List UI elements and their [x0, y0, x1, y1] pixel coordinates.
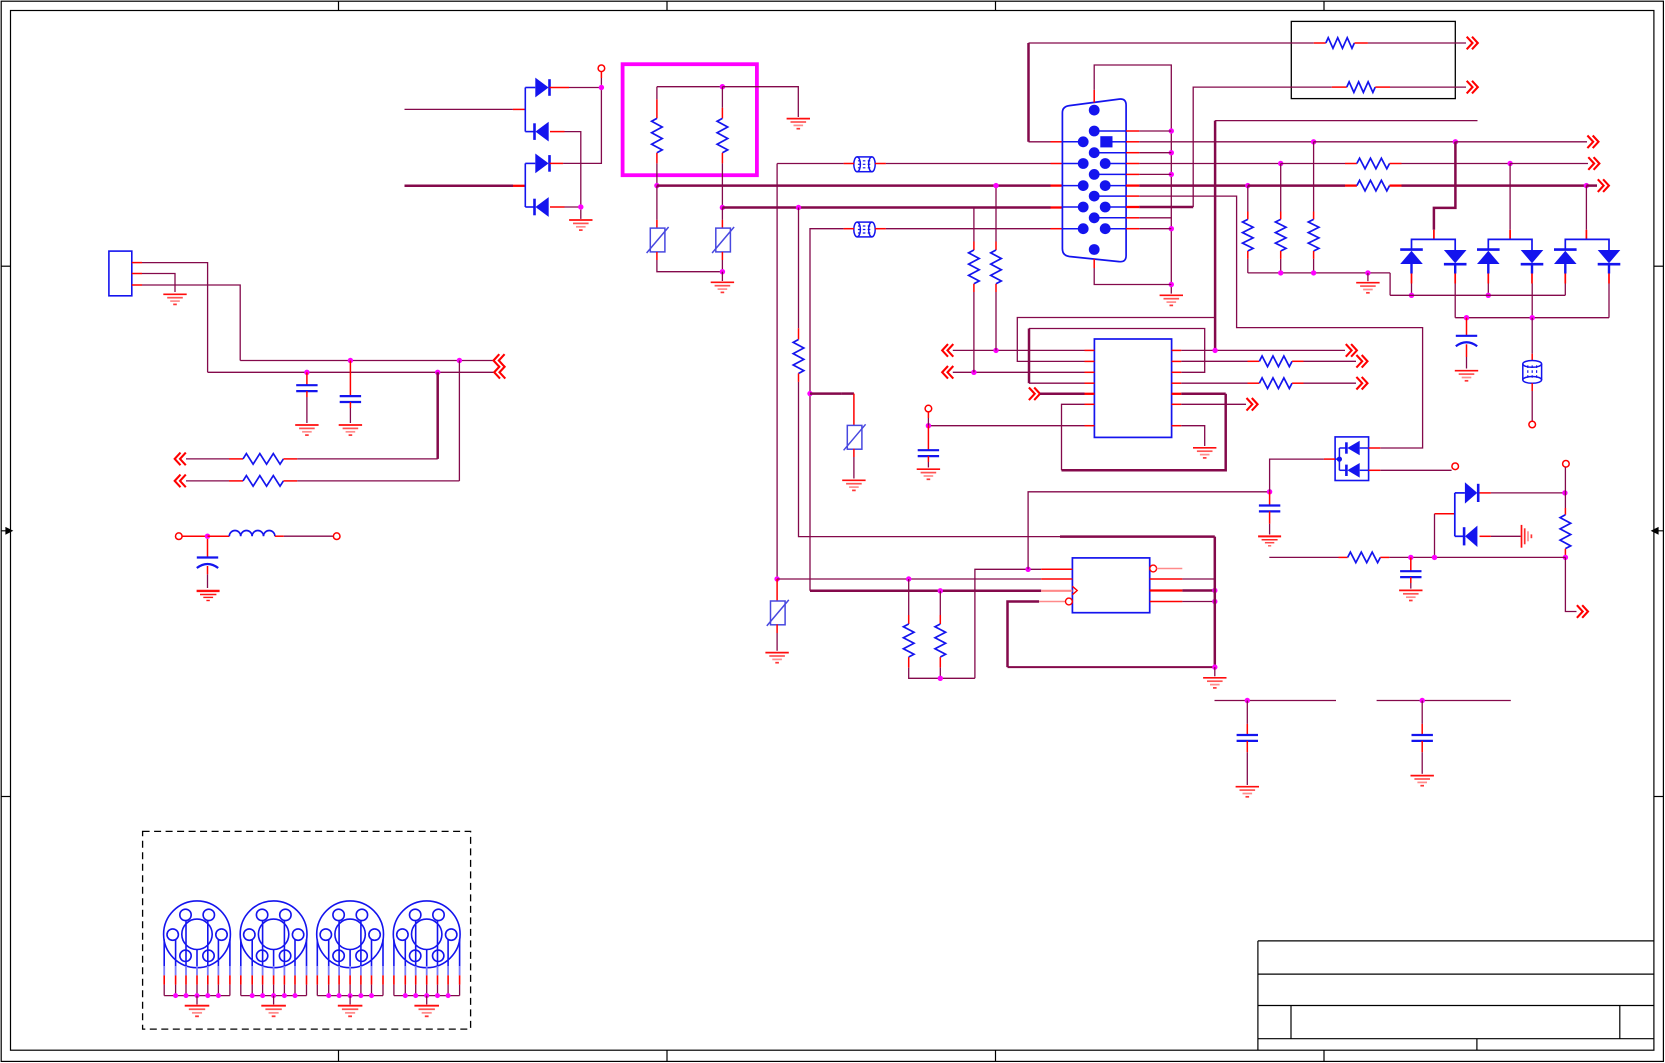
ground rotated: [1522, 525, 1532, 548]
wire: [405, 108, 513, 110]
wire: [1182, 589, 1214, 592]
ground: [426, 996, 428, 1005]
diode D2B: [535, 197, 549, 217]
pin stub: [229, 458, 243, 460]
cap stem: [1466, 318, 1468, 336]
ground: [196, 996, 198, 1005]
diode pair bridge: [1488, 239, 1532, 250]
node junction: [720, 84, 725, 89]
wire: [722, 87, 798, 117]
node junction: [1212, 664, 1217, 669]
diode DA: [1477, 250, 1500, 264]
wire: [722, 206, 1050, 209]
wire: [1269, 511, 1271, 523]
pin stub: [853, 394, 855, 426]
wire: [721, 208, 723, 220]
wire: [1181, 393, 1225, 396]
wire: [1214, 121, 1217, 351]
pin stub: [776, 624, 778, 633]
resistor R14: [935, 624, 946, 657]
connector J3 leads: [241, 921, 307, 966]
wire: [1215, 120, 1477, 122]
pin stub: [1345, 163, 1357, 165]
resistor R2: [717, 118, 728, 152]
pin stub: [1480, 492, 1491, 494]
wire: [1248, 184, 1345, 187]
resistor R at 1248: [1243, 219, 1254, 251]
wire: [1027, 43, 1030, 142]
wire: [1139, 196, 1422, 448]
pin stub: [875, 163, 886, 165]
node junction: [774, 576, 779, 581]
wire: [1269, 556, 1338, 558]
pin stub: [1314, 42, 1326, 44]
pin stub: [1375, 86, 1390, 88]
pin stub: [1150, 589, 1183, 591]
connector J5: [393, 901, 460, 968]
wire: [1248, 272, 1390, 274]
node junction: [1563, 555, 1568, 560]
wire rail: [1377, 700, 1511, 702]
pin stub: [1345, 184, 1357, 186]
wire: [1531, 318, 1533, 354]
ground: [1236, 787, 1259, 797]
wire: [1410, 577, 1412, 583]
pin stub: [1585, 230, 1587, 240]
wire: [1313, 259, 1315, 273]
pin stub: [721, 252, 723, 260]
wire: [1017, 318, 1215, 362]
diode DA: [1554, 250, 1577, 264]
pin stub: [656, 99, 658, 118]
port P3: [333, 533, 340, 540]
wire: [1182, 578, 1214, 580]
cap stem: [349, 361, 351, 397]
wire: [777, 163, 844, 165]
port stem: [927, 412, 929, 418]
wire: [565, 132, 581, 207]
connector J1: [109, 251, 132, 296]
wire: [186, 480, 229, 482]
wire: [1193, 87, 1332, 207]
off-page arrow: [175, 475, 186, 488]
connector CON1 pins: [1062, 141, 1083, 143]
resistor R17: [793, 340, 804, 374]
node junction: [971, 370, 976, 375]
node junction: [348, 358, 353, 363]
wire: [1402, 163, 1511, 165]
node junction: [938, 588, 943, 593]
pin stub: [513, 108, 525, 110]
pin stub: [908, 657, 910, 668]
pin stub: [1433, 230, 1435, 240]
wire: [721, 87, 723, 108]
wire: [721, 260, 723, 272]
pin stub: [1248, 360, 1260, 362]
resistor R16: [1348, 552, 1381, 563]
off-page arrow: [1587, 136, 1598, 149]
pin stub: [656, 220, 658, 228]
varistor RV2: [712, 227, 734, 253]
pin stub: [1531, 354, 1533, 361]
resistor R11: [1259, 356, 1292, 367]
wire: [1313, 142, 1315, 212]
pin stubs: [1411, 274, 1413, 284]
pin stub: [1248, 382, 1260, 384]
node junction: [720, 269, 725, 274]
off-page arrow: [1588, 157, 1599, 170]
diode D4B: [1464, 526, 1477, 547]
wire: [349, 402, 351, 408]
cap stem: [927, 426, 929, 451]
pin stub: [776, 579, 778, 601]
wire: [297, 458, 437, 460]
ground: [917, 469, 940, 479]
diode D3 out leads: [1360, 447, 1369, 449]
connector J3: [240, 901, 307, 968]
port P6: [1452, 463, 1459, 470]
wire: [776, 164, 778, 580]
pin stub: [550, 162, 564, 164]
diode D4A: [1465, 482, 1478, 503]
node junctions: [403, 993, 408, 998]
IC U2 clock pin: [1072, 586, 1077, 594]
wire: [810, 229, 844, 591]
wire: [1094, 65, 1171, 294]
wire: [208, 371, 494, 373]
cap stem: [207, 539, 209, 558]
ground: [197, 591, 220, 601]
wire: [973, 292, 975, 372]
wire: [458, 361, 460, 481]
ground: [1411, 776, 1434, 786]
node junction: [926, 423, 931, 428]
port P1: [598, 65, 605, 72]
pin stub: [656, 153, 658, 164]
wire: [810, 590, 1041, 593]
wire: [1421, 741, 1423, 752]
wire: [886, 163, 1051, 165]
pin stub: [798, 328, 800, 339]
wire bus: [241, 995, 307, 997]
wire: [436, 372, 439, 459]
pin stub: [1041, 590, 1072, 592]
diode D3A: [1346, 441, 1359, 456]
wire: [1434, 514, 1436, 558]
ground: [1367, 273, 1369, 281]
capacitor C7: [1400, 571, 1421, 577]
resistor R7: [1357, 158, 1390, 169]
wire: [776, 633, 778, 651]
node junction: [1420, 698, 1425, 703]
pin stub: [1051, 184, 1063, 186]
wire: [306, 391, 308, 397]
connector J2: [164, 901, 231, 968]
connector J5 leads: [394, 921, 460, 966]
node junction: [1212, 348, 1217, 353]
wire: [1434, 142, 1456, 230]
wire: [1304, 382, 1357, 384]
wire: [1214, 537, 1217, 668]
pin stub: [721, 220, 723, 228]
node junction: [1245, 183, 1250, 188]
diode pair bridge: [1412, 239, 1456, 250]
pin stub: [132, 284, 142, 286]
IC U1 pin stubs: [1085, 349, 1095, 351]
diode D1A: [535, 78, 549, 98]
off-page arrow: [1467, 81, 1478, 94]
diode pair D1 leads: [524, 88, 526, 132]
pin stub: [1369, 469, 1381, 471]
diode D3 common lead: [1335, 458, 1339, 460]
capacitor C1: [296, 385, 317, 391]
node junction: [1267, 489, 1272, 494]
wire: [1094, 268, 1171, 285]
wire: [1139, 141, 1313, 143]
node junction: [1408, 555, 1413, 560]
title block: [1258, 941, 1654, 1050]
node junction: [457, 358, 462, 363]
node junction: [993, 348, 998, 353]
pin stub: [1157, 568, 1183, 570]
wire: [975, 569, 1041, 678]
wire: [1455, 141, 1587, 143]
IC U2: [1072, 558, 1149, 613]
wire: [1531, 284, 1533, 318]
pin stub: [875, 228, 886, 230]
capacitor C9: [1412, 735, 1433, 741]
off-page arrow: [175, 453, 186, 466]
pin stub: [208, 535, 230, 537]
inductor L1: [229, 531, 275, 537]
off-page arrow: [1356, 377, 1367, 390]
shield box: [143, 831, 471, 1029]
node junction: [1562, 490, 1567, 495]
IC U1: [1094, 339, 1171, 437]
wire: [297, 480, 459, 482]
pin stub: [550, 131, 565, 133]
off-page arrow: [1467, 37, 1478, 50]
wire: [721, 163, 723, 207]
pin stub: [1390, 184, 1402, 186]
pin stub: [1247, 251, 1249, 259]
diode pair D4 leads: [1454, 493, 1456, 536]
wire: [810, 392, 842, 395]
wire: [1270, 459, 1324, 492]
node junction: [578, 204, 583, 209]
wire: [777, 578, 1041, 580]
wire: [207, 566, 209, 574]
diode DB: [1521, 250, 1544, 264]
wire: [142, 263, 208, 373]
wire: [1246, 741, 1248, 752]
node junction: [1486, 293, 1491, 298]
pin stub: [973, 242, 975, 251]
pin stub: [1039, 601, 1066, 603]
resistor R10: [969, 250, 980, 284]
wire: [1389, 273, 1391, 295]
diode D2A: [535, 154, 549, 174]
wire: [1491, 535, 1521, 537]
pin stub: [656, 252, 658, 260]
ground: [349, 996, 351, 1005]
wire: [1421, 701, 1423, 724]
wire: [1062, 404, 1085, 470]
wire: [939, 591, 941, 615]
wire: [1139, 163, 1280, 165]
resistor R6: [1347, 82, 1376, 93]
ground: [580, 210, 582, 219]
pin stub: [844, 228, 854, 230]
wire: [953, 349, 1085, 351]
off-page arrow: [494, 354, 505, 367]
wire: [1510, 163, 1588, 165]
ground: [787, 119, 810, 129]
capacitor C5: [918, 450, 939, 456]
wire: [657, 184, 1051, 187]
wire: [1586, 184, 1597, 187]
wire: [798, 208, 800, 329]
node junctions: [173, 993, 178, 998]
pin stub: [1531, 383, 1533, 391]
right border mid arrow: [1652, 528, 1664, 534]
node junction: [906, 576, 911, 581]
wire: [886, 228, 1051, 230]
wire: [853, 457, 855, 479]
ground: [1214, 667, 1216, 676]
pin stub: [973, 284, 975, 292]
wire: [927, 456, 929, 462]
wire: [1029, 329, 1205, 373]
pin stub: [1093, 90, 1095, 103]
wire: [565, 206, 581, 208]
pin stub: [229, 480, 243, 482]
node junction: [654, 183, 659, 188]
resistor R15: [1560, 515, 1571, 549]
diode D1B: [535, 122, 549, 142]
wire: [1509, 164, 1511, 230]
wire: [1491, 492, 1565, 494]
wire: [973, 208, 975, 242]
wire bus: [164, 995, 230, 997]
wire: [953, 371, 1085, 373]
wire: [1008, 666, 1215, 668]
pin stub: [721, 108, 723, 119]
off-page arrow: [1577, 605, 1588, 618]
pin stub: [1369, 447, 1381, 449]
wire: [1028, 329, 1031, 384]
pin stub: [939, 657, 941, 668]
node junction: [938, 676, 943, 681]
border ruler ticks: [338, 1, 340, 10]
wire: [563, 88, 601, 164]
highlight box: [623, 64, 757, 175]
pin stub: [1564, 508, 1566, 515]
wire: [1182, 601, 1214, 603]
ground: [765, 653, 788, 663]
wire: [1062, 394, 1226, 471]
pin stub: [1564, 549, 1566, 558]
pin stub: [908, 615, 910, 624]
wire: [1402, 184, 1587, 187]
off-page arrow: [1356, 355, 1367, 368]
pin stub: [1354, 42, 1368, 44]
pin stub: [550, 206, 565, 208]
pin stub: [1150, 578, 1183, 580]
ground: [273, 996, 275, 1005]
wire: [1040, 393, 1085, 396]
node junction: [1409, 293, 1414, 298]
wire: [1380, 469, 1451, 471]
wire: [1411, 284, 1413, 296]
wire: [240, 360, 493, 362]
off-page arrow: [1598, 179, 1609, 192]
resistor R9: [991, 250, 1002, 284]
wire: [1280, 259, 1282, 273]
pin stub: [1041, 578, 1072, 580]
diode DB: [1598, 250, 1621, 264]
node junction: [1278, 161, 1283, 166]
wire: [1139, 184, 1248, 187]
pin stubs: [1564, 274, 1566, 284]
wire: [1139, 228, 1171, 230]
pin stub: [283, 458, 297, 460]
wire: [1139, 206, 1193, 209]
wire: [142, 285, 240, 361]
wire: [569, 87, 601, 89]
pin stub: [1380, 556, 1389, 558]
wire: [186, 458, 229, 460]
resistor R8: [1357, 180, 1390, 191]
off-page arrow: [494, 366, 505, 379]
pin stub: [1280, 251, 1282, 259]
wire: [1181, 382, 1247, 384]
wire: [656, 163, 658, 185]
node junction: [1212, 599, 1217, 604]
wire: [1314, 141, 1456, 143]
wire: [1139, 173, 1171, 175]
cap stem: [1269, 492, 1271, 506]
off-page arrow: [1346, 344, 1357, 357]
diode DA: [1400, 250, 1423, 264]
resistor R13: [903, 624, 914, 657]
node junction: [205, 534, 210, 539]
pin stub: [513, 185, 525, 187]
pin stub: [1051, 228, 1063, 230]
varistor RV4: [767, 600, 789, 626]
diode D3B: [1346, 463, 1359, 478]
node junction: [1245, 698, 1250, 703]
diode leads: [1487, 264, 1489, 274]
wire bus: [394, 995, 460, 997]
pin stub: [132, 273, 142, 275]
wire: [928, 425, 1084, 427]
port stem: [600, 72, 602, 78]
wire bus: [1455, 317, 1609, 319]
node junction: [1507, 161, 1512, 166]
wire bus: [317, 995, 383, 997]
pin stub: [283, 480, 297, 482]
IC U2 bubble: [1150, 565, 1157, 572]
node junction: [1453, 139, 1458, 144]
resistor R at 1314: [1308, 219, 1319, 251]
wire: [1008, 602, 1040, 668]
pin stub: [1280, 212, 1282, 220]
ground: [163, 294, 186, 304]
wire: [1060, 535, 1215, 538]
wire: [1368, 42, 1466, 44]
capacitor C6: [1259, 506, 1280, 512]
